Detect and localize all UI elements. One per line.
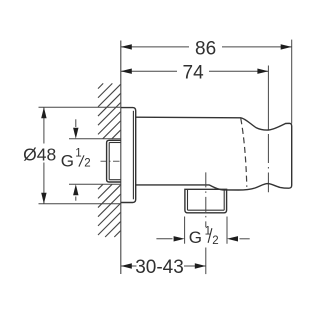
inlet union nut outer	[107, 140, 121, 182]
inlet union nut inner lines	[109, 142, 121, 144]
outlet G1/2 dim extension right	[226, 217, 228, 244]
outlet G1/2 right arrow (points left)	[240, 238, 250, 240]
dimension 86 left arrow	[121, 44, 132, 49]
dimension 86 line	[121, 46, 189, 48]
dimension D48 extension bottom	[39, 203, 121, 205]
dimension 30-43 line	[121, 265, 137, 267]
flange (escutcheon) outline	[121, 108, 136, 203]
inlet G1/2 dimension extension bottom	[69, 183, 121, 185]
outlet G1/2 dim extension left	[184, 217, 186, 244]
dimension 74 line	[121, 70, 177, 72]
inlet G1/2 dimension extension top	[69, 138, 121, 140]
hidden edge (dashed) in body	[241, 119, 247, 187]
svg-text:2: 2	[212, 235, 218, 247]
dimension D48 bottom arrow	[41, 193, 46, 204]
svg-text:74: 74	[183, 63, 205, 84]
dimension 86 right arrow	[281, 44, 292, 49]
outlet union outer	[185, 189, 227, 213]
svg-text:Ø48: Ø48	[23, 144, 56, 164]
wall hatching lower patch	[98, 184, 121, 237]
dimension D48 top arrow	[41, 107, 46, 118]
74 extension / holder centerline (vertical)	[267, 66, 269, 130]
dimension 30-43 left arrow	[121, 263, 132, 268]
svg-text:86: 86	[195, 39, 216, 60]
outlet vertical centerline	[205, 172, 207, 227]
dimension D48 line	[43, 107, 45, 143]
dimension 74 right arrow	[257, 69, 268, 74]
inlet G1/2 bottom arrow (points up)	[75, 197, 77, 201]
outlet centerline extension for 30-43	[205, 248, 207, 275]
dimension 30-43 right arrow	[195, 263, 206, 268]
holder body top contour	[136, 117, 292, 190]
wall hatching upper patch	[98, 83, 121, 138]
dimension 74 left arrow	[121, 69, 132, 74]
wall face line / left extension line	[120, 41, 122, 275]
horizontal centerline of inlet	[101, 160, 121, 162]
svg-text:2: 2	[84, 157, 90, 169]
outlet G1/2 left arrow (points right)	[156, 238, 172, 240]
outlet union inner lines	[187, 189, 189, 210]
svg-text:30-43: 30-43	[135, 257, 184, 278]
right extension line (86)	[291, 40, 293, 124]
inlet G1/2 top arrow (points down)	[75, 119, 77, 127]
svg-text:G: G	[189, 228, 202, 247]
svg-text:G: G	[61, 151, 74, 170]
flange chamfer line	[132, 111, 134, 200]
dimension D48 extension top	[39, 106, 121, 108]
svg-text:1: 1	[75, 148, 81, 160]
